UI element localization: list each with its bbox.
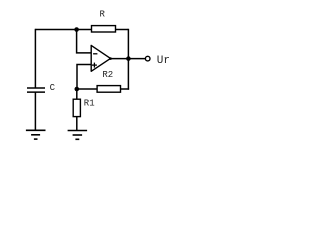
wire from resistor R to top-right corner xyxy=(116,29,129,31)
ground left bar1 xyxy=(26,129,46,131)
ground right bar3 xyxy=(75,138,79,140)
node A junction dot (top, feedback tap) xyxy=(74,27,79,32)
wire node B down to resistor R1 xyxy=(76,89,78,99)
wire right vertical (top-right corner down to R2 corner) xyxy=(127,29,129,90)
wire non-inverting input: triangle left to corner and down to node B xyxy=(77,65,91,90)
wire left vertical (top corner down to capacitor) xyxy=(34,29,36,88)
wire top horizontal from left corner to resistor R xyxy=(35,29,91,31)
svg-text:Ur: Ur xyxy=(157,55,170,67)
capacitor C bottom plate xyxy=(27,91,45,93)
node B junction dot (non-inverting / R1 / R2 tap) xyxy=(75,87,80,92)
op-amp U1 triangle xyxy=(91,45,110,71)
ground right bar2 xyxy=(73,134,83,136)
resistor R xyxy=(92,26,116,32)
ground right bar1 xyxy=(68,130,88,132)
op-amp minus sign xyxy=(93,53,97,55)
wire resistor R2 right to right vertical xyxy=(121,88,130,90)
capacitor C top plate xyxy=(27,87,45,89)
wire inverting feedback: junction down and right to op-amp minus input xyxy=(77,30,92,53)
svg-text:R2: R2 xyxy=(102,70,113,80)
node output junction dot xyxy=(126,56,131,61)
wire node B right to resistor R2 xyxy=(77,88,97,90)
svg-text:C: C xyxy=(50,83,56,93)
resistor R1 xyxy=(73,99,80,116)
op-amp plus sign xyxy=(92,64,97,66)
wire capacitor bottom to ground xyxy=(34,92,36,130)
wire resistor R1 to ground xyxy=(76,117,78,131)
ground left bar2 xyxy=(31,134,40,136)
wire op-amp output to terminal xyxy=(111,58,146,60)
ground left bar3 xyxy=(34,138,38,140)
svg-text:R1: R1 xyxy=(84,99,95,109)
terminal Ur open circle xyxy=(145,56,150,61)
op-amp output dot at apex xyxy=(109,57,112,60)
svg-text:R: R xyxy=(100,10,106,20)
resistor R2 xyxy=(97,86,120,93)
